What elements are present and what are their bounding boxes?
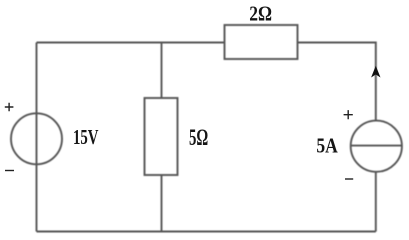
polarity plus of V1 [5,103,14,112]
wire bottom rail [37,231,376,233]
current source I1 circle [351,121,402,172]
svg-text:5Ω: 5Ω [189,125,208,150]
svg-text:15V: 15V [73,125,99,149]
resistor 2Ω body [225,25,298,59]
wire top-left segment (node A to resistor 2Ω) [37,42,225,44]
polarity minus of V1 [5,170,14,172]
svg-text:5A: 5A [316,133,338,157]
polarity plus of I1 [344,110,353,119]
wire middle branch lower (5Ω to bottom node) [161,175,163,232]
current source I1 center chord [351,145,402,147]
wire 2Ω to top-right corner and down to arrow [298,43,376,121]
wire left branch (through 15V source) [36,43,38,232]
resistor 5Ω body [145,98,178,175]
wire right branch lower (5A source to bottom rail) [375,173,377,232]
svg-text:2Ω: 2Ω [249,2,272,26]
wire middle branch upper (top node to 5Ω) [161,43,163,99]
polarity minus of I1 [345,178,353,180]
current direction arrowhead on right branch [371,66,380,78]
voltage source V1 circle [11,113,62,164]
